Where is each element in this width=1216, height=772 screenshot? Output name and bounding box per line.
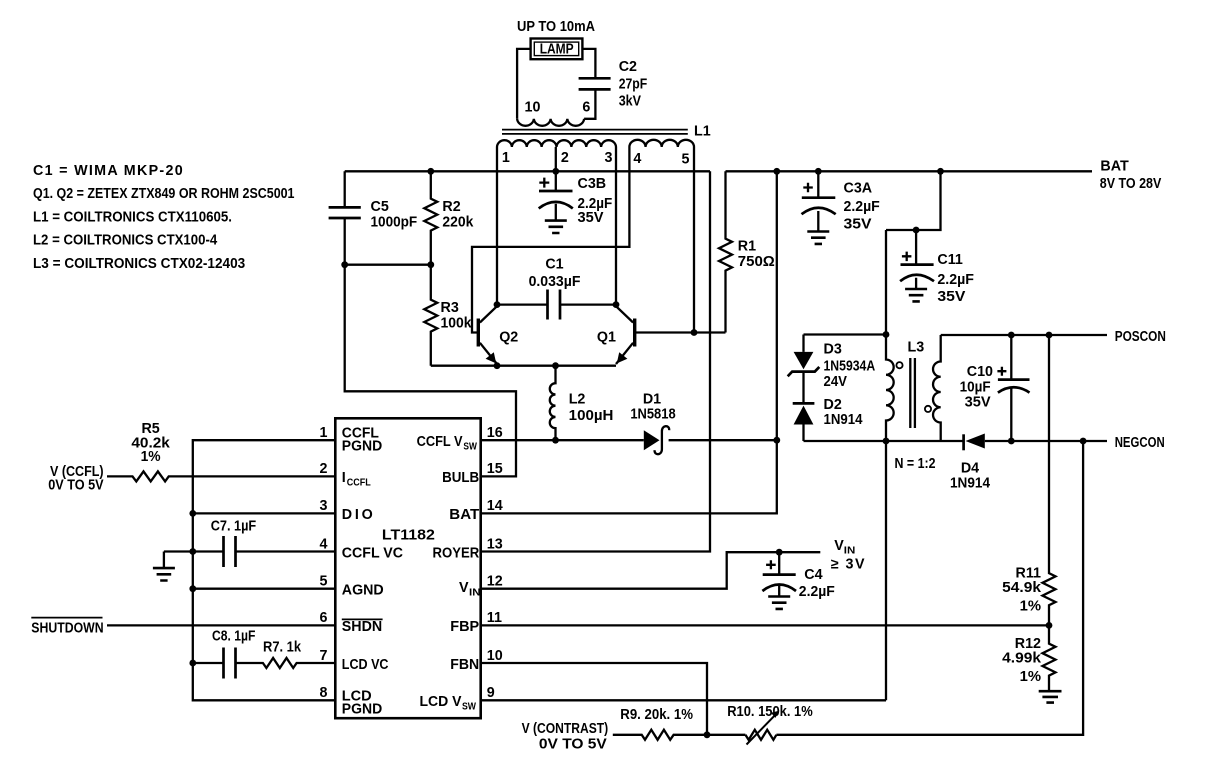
diode D3 zener xyxy=(788,335,876,391)
transistor Q1 xyxy=(597,306,635,364)
svg-text:35V: 35V xyxy=(578,210,604,226)
resistor R11 xyxy=(1002,335,1055,625)
junction FBP divider xyxy=(1046,622,1053,629)
svg-text:≥ 3V: ≥ 3V xyxy=(831,557,866,573)
wire FBP pin 11 xyxy=(481,624,1049,626)
junction bus pin 3 xyxy=(189,510,196,517)
svg-text:1%: 1% xyxy=(1020,669,1042,685)
svg-text:C4: C4 xyxy=(804,567,822,583)
svg-text:SHUTDOWN: SHUTDOWN xyxy=(31,621,103,637)
wire L1 pin 5 to Q1 base xyxy=(693,147,695,333)
svg-text:IN: IN xyxy=(469,588,481,599)
wire pin 5 AGND xyxy=(193,588,335,590)
L3 secondary phase dot xyxy=(925,406,931,412)
svg-text:12: 12 xyxy=(487,574,503,590)
svg-text:750Ω: 750Ω xyxy=(738,254,775,270)
wire ROYER riser pin 13 xyxy=(481,171,710,551)
svg-text:LCD VC: LCD VC xyxy=(342,657,389,673)
svg-text:220k: 220k xyxy=(442,215,473,231)
transformer L1 feedback winding 4-5 xyxy=(629,140,694,147)
wire D4 to NEGCON xyxy=(985,440,1107,442)
svg-text:35V: 35V xyxy=(937,289,965,305)
wire CCFL VSW to D1 xyxy=(481,439,644,441)
svg-text:54.9k: 54.9k xyxy=(1002,580,1041,596)
ground C3B xyxy=(545,221,567,233)
wire emitter rail xyxy=(431,365,616,367)
svg-text:10: 10 xyxy=(525,100,541,116)
capacitor C5 xyxy=(329,171,418,264)
junction VIN C4 xyxy=(776,549,783,556)
svg-text:15: 15 xyxy=(487,461,503,477)
junction POSCON C10 xyxy=(1008,332,1015,339)
capacitor C3B xyxy=(539,171,613,226)
wire BAT riser pin 14 xyxy=(481,171,777,513)
svg-text:PGND: PGND xyxy=(342,701,382,717)
svg-text:6: 6 xyxy=(320,610,328,626)
wire D1 to BAT riser xyxy=(669,439,777,441)
transformer L3 secondary xyxy=(933,335,941,441)
ground R12 xyxy=(1039,691,1062,702)
svg-text:1N5818: 1N5818 xyxy=(630,407,675,423)
svg-text:L1 = COILTRONICS CTX110605.: L1 = COILTRONICS CTX110605. xyxy=(33,209,232,225)
svg-text:C3B: C3B xyxy=(578,176,607,192)
resistor R3 xyxy=(424,265,471,366)
wire pin 3 DIO xyxy=(193,512,335,514)
capacitor C3A xyxy=(802,171,881,232)
svg-text:4: 4 xyxy=(633,151,641,167)
svg-text:C5: C5 xyxy=(371,199,389,215)
svg-text:R1: R1 xyxy=(738,239,756,255)
svg-text:L1: L1 xyxy=(694,124,711,140)
svg-text:1N5934A: 1N5934A xyxy=(824,359,876,375)
junction rail R2 xyxy=(427,168,434,175)
junction NEGCON riser xyxy=(1080,438,1087,445)
svg-text:C1 = WIMA MKP-20: C1 = WIMA MKP-20 xyxy=(33,163,183,179)
svg-text:R7. 1k: R7. 1k xyxy=(263,640,301,656)
ground C4 xyxy=(768,597,790,609)
svg-text:D3: D3 xyxy=(824,342,842,358)
svg-text:Q2: Q2 xyxy=(499,330,518,346)
svg-text:13: 13 xyxy=(487,536,503,552)
junction R2 R3 node xyxy=(427,261,434,268)
svg-text:L3: L3 xyxy=(908,340,925,356)
svg-text:4.99k: 4.99k xyxy=(1002,651,1041,667)
svg-text:DIO: DIO xyxy=(342,507,373,523)
svg-text:100µH: 100µH xyxy=(569,408,614,424)
junction rail C11 riser xyxy=(937,168,944,175)
junction BAT rail riser xyxy=(773,168,780,175)
pin 16 name CCFL VSW xyxy=(417,434,478,453)
junction Q1 collector xyxy=(613,301,620,308)
L3 core xyxy=(910,358,915,428)
svg-text:NEGCON: NEGCON xyxy=(1115,435,1165,451)
wire lamp left to L1 pin 10 xyxy=(517,49,531,119)
junction bus pin 5 xyxy=(189,585,196,592)
label V (CCFL) input xyxy=(48,464,104,493)
svg-text:Q1: Q1 xyxy=(597,330,616,346)
svg-text:LCD V: LCD V xyxy=(420,694,462,710)
L3 primary phase dot xyxy=(896,362,902,368)
wire FBN pin 10 xyxy=(481,663,707,735)
svg-text:FBP: FBP xyxy=(450,619,479,635)
svg-text:V: V xyxy=(459,580,469,596)
L1 core xyxy=(502,130,688,134)
diode D2 xyxy=(793,372,863,441)
wire LCD VSW pin 9 xyxy=(481,699,886,701)
svg-text:LT1182: LT1182 xyxy=(382,527,435,543)
wire POSCON rail xyxy=(941,334,1107,336)
resistor R12 xyxy=(1002,625,1055,691)
junction D1 BAT riser xyxy=(773,437,780,444)
junction C10 NEGCON xyxy=(1008,438,1015,445)
pin 12 name VIN xyxy=(459,580,481,599)
svg-text:2.2µF: 2.2µF xyxy=(844,199,881,215)
junction Q2 emitter xyxy=(494,362,501,369)
resistor R5 xyxy=(107,421,335,481)
svg-text:27pF: 27pF xyxy=(619,76,648,92)
junction contrast feedback xyxy=(704,731,711,738)
svg-text:C10: C10 xyxy=(967,364,993,380)
ground C3A xyxy=(807,232,829,244)
wire R10 to R9 xyxy=(707,734,745,736)
svg-text:R9. 20k. 1%: R9. 20k. 1% xyxy=(620,707,693,723)
svg-text:V (CONTRAST): V (CONTRAST) xyxy=(522,721,609,737)
junction C5 bulb node xyxy=(341,261,348,268)
svg-text:2: 2 xyxy=(561,150,569,166)
svg-text:3: 3 xyxy=(605,150,613,166)
wire NEGCON riser to bottom rail xyxy=(776,441,1083,735)
wire L1 pin 1 to Q2 collector xyxy=(496,147,498,305)
junction POSCON R11 xyxy=(1046,332,1053,339)
svg-text:10µF: 10µF xyxy=(960,380,991,396)
transformer L1 primary winding 1-3 xyxy=(497,140,616,147)
svg-text:AGND: AGND xyxy=(342,583,384,599)
svg-text:C3A: C3A xyxy=(844,181,873,197)
junction L3 primary top xyxy=(883,331,890,338)
svg-text:BAT: BAT xyxy=(449,507,479,523)
capacitor C10 xyxy=(960,335,1030,441)
resistor R2 xyxy=(424,171,473,264)
svg-text:PGND: PGND xyxy=(342,439,382,455)
wire L1 pin 2 center tap to rail xyxy=(555,147,557,171)
wire L1 pin 3 to Q1 collector xyxy=(615,147,617,305)
svg-text:2.2µF: 2.2µF xyxy=(937,272,974,288)
svg-text:SW: SW xyxy=(463,442,477,453)
svg-text:SHDN: SHDN xyxy=(342,619,382,635)
junction C11 jog xyxy=(913,227,920,234)
capacitor C2 xyxy=(579,59,648,110)
svg-text:1: 1 xyxy=(502,150,510,166)
IC U1 LT1182 xyxy=(335,418,480,718)
svg-text:C8. 1µF: C8. 1µF xyxy=(212,628,256,644)
svg-text:11: 11 xyxy=(487,610,502,626)
ground C11 xyxy=(905,289,927,301)
svg-text:BULB: BULB xyxy=(442,470,479,486)
junction L3 primary bottom xyxy=(883,438,890,445)
svg-text:2.2µF: 2.2µF xyxy=(799,584,835,600)
capacitor C11 xyxy=(900,230,974,305)
pin 6 name SHDN xyxy=(342,619,383,635)
junction bus pin 4 xyxy=(189,548,196,555)
svg-text:3: 3 xyxy=(320,498,328,514)
svg-text:SW: SW xyxy=(462,702,476,713)
wire C2 to L1 pin 6 xyxy=(584,89,595,118)
inductor L2 xyxy=(550,366,614,441)
svg-text:8V TO 28V: 8V TO 28V xyxy=(1100,176,1162,192)
svg-text:7: 7 xyxy=(320,648,328,664)
svg-text:100k: 100k xyxy=(441,316,472,332)
svg-text:5: 5 xyxy=(682,152,690,168)
svg-text:C11: C11 xyxy=(937,252,962,268)
wire D2 bottom to D4 xyxy=(804,440,964,442)
svg-text:1: 1 xyxy=(320,425,328,441)
junction L1 pin5 Q1 base xyxy=(691,329,698,336)
svg-text:CCFL V: CCFL V xyxy=(417,434,463,450)
wire SHDN pin 6 xyxy=(107,624,335,626)
svg-text:R10. 150k. 1%: R10. 150k. 1% xyxy=(727,704,813,720)
svg-text:35V: 35V xyxy=(844,217,872,233)
junction L2 emitter rail xyxy=(552,362,559,369)
svg-text:Q1. Q2 = ZETEX ZTX849 OR ROHM: Q1. Q2 = ZETEX ZTX849 OR ROHM 2SC5001 xyxy=(33,186,295,202)
svg-text:LAMP: LAMP xyxy=(540,41,574,57)
capacitor C1 xyxy=(497,257,616,320)
wire VIN pin 12 xyxy=(481,552,821,589)
svg-text:R2: R2 xyxy=(442,199,460,215)
parts list notes xyxy=(33,163,295,272)
capacitor C7 xyxy=(193,519,335,568)
resistor R1 xyxy=(719,171,775,332)
junction rail C3A xyxy=(815,168,822,175)
svg-text:1000pF: 1000pF xyxy=(371,215,418,231)
svg-text:IN: IN xyxy=(844,546,856,557)
svg-text:L3 = COILTRONICS CTX02-12403: L3 = COILTRONICS CTX02-12403 xyxy=(33,256,245,272)
wire L1 pin 4 to Q2 base xyxy=(472,147,629,333)
svg-text:1%: 1% xyxy=(141,449,161,465)
svg-text:14: 14 xyxy=(487,498,503,514)
junction L2 CCFL VSW xyxy=(552,437,559,444)
label SHUTDOWN xyxy=(31,618,103,637)
wire Q1 base to R1 xyxy=(635,331,726,333)
svg-text:24V: 24V xyxy=(824,374,848,390)
transformer L1 secondary winding xyxy=(517,119,584,126)
junction rail center tap xyxy=(552,168,559,175)
pin 8 name LCD PGND xyxy=(342,688,382,717)
transistor Q2 xyxy=(478,306,518,364)
svg-text:4: 4 xyxy=(320,536,328,552)
svg-text:1N914: 1N914 xyxy=(824,412,863,428)
svg-text:1%: 1% xyxy=(1020,599,1042,615)
svg-text:0.033µF: 0.033µF xyxy=(529,274,581,290)
svg-text:D4: D4 xyxy=(961,461,979,477)
svg-text:8: 8 xyxy=(320,685,328,701)
svg-text:C1: C1 xyxy=(545,257,563,273)
wire C5 to R2 junction xyxy=(345,264,431,266)
capacitor C8 xyxy=(193,628,256,678)
wire left bus pins 1 and 8 xyxy=(193,440,335,700)
junction bus pin 7 xyxy=(189,660,196,667)
svg-text:9: 9 xyxy=(487,685,495,701)
transformer L3 primary xyxy=(886,230,894,700)
diode D1 xyxy=(630,391,675,454)
svg-text:0V TO 5V: 0V TO 5V xyxy=(48,477,104,493)
wire BULB sense pin 15 xyxy=(345,265,516,477)
svg-text:D1: D1 xyxy=(643,391,661,407)
svg-text:N = 1:2: N = 1:2 xyxy=(895,456,936,472)
svg-text:6: 6 xyxy=(582,100,590,116)
wire D3 clamp top xyxy=(804,333,887,335)
resistor R7 xyxy=(236,640,336,669)
pin 9 name LCD VSW xyxy=(420,694,477,713)
ground left AGND xyxy=(153,568,175,580)
wire lamp right to C2 xyxy=(582,49,595,78)
svg-text:CCFL VC: CCFL VC xyxy=(342,545,403,561)
svg-text:10: 10 xyxy=(487,648,503,664)
svg-text:R3: R3 xyxy=(441,300,459,316)
svg-text:C2: C2 xyxy=(619,59,637,75)
pin 2 name ICCFL xyxy=(342,470,371,489)
svg-text:BAT: BAT xyxy=(1100,159,1129,175)
svg-text:FBN: FBN xyxy=(450,657,479,673)
label VIN input xyxy=(831,538,866,573)
capacitor C4 xyxy=(762,552,835,600)
label V (CONTRAST) input xyxy=(522,721,609,753)
svg-text:CCFL: CCFL xyxy=(347,478,371,489)
wire C11 jog to L3 primary xyxy=(886,171,941,230)
svg-text:I: I xyxy=(342,470,346,486)
wire Royer supply rail xyxy=(345,170,710,172)
svg-text:0V TO 5V: 0V TO 5V xyxy=(539,737,607,753)
wire ground stub AGND bus xyxy=(164,552,193,569)
svg-text:POSCON: POSCON xyxy=(1115,329,1166,345)
svg-text:ROYER: ROYER xyxy=(433,545,480,561)
svg-text:35V: 35V xyxy=(965,395,991,411)
diode D4 xyxy=(950,434,990,492)
svg-text:D2: D2 xyxy=(824,397,842,413)
svg-text:16: 16 xyxy=(487,425,503,441)
svg-text:1N914: 1N914 xyxy=(950,475,990,491)
junction Q2 collector xyxy=(494,301,501,308)
pin 1 name CCFL PGND xyxy=(342,426,382,455)
resistor R9 xyxy=(613,707,707,740)
svg-text:C7. 1µF: C7. 1µF xyxy=(211,519,257,535)
svg-text:L2: L2 xyxy=(569,392,586,408)
wire BAT rail xyxy=(726,170,1093,172)
lamp LAMP1 xyxy=(531,39,583,60)
svg-text:V: V xyxy=(834,538,844,554)
svg-text:3kV: 3kV xyxy=(619,94,642,110)
svg-text:UP TO 10mA: UP TO 10mA xyxy=(517,19,595,35)
svg-text:5: 5 xyxy=(320,574,328,590)
resistor R10 variable xyxy=(727,704,813,745)
svg-text:L2 = COILTRONICS CTX100-4: L2 = COILTRONICS CTX100-4 xyxy=(33,233,217,249)
svg-text:2: 2 xyxy=(320,461,328,477)
